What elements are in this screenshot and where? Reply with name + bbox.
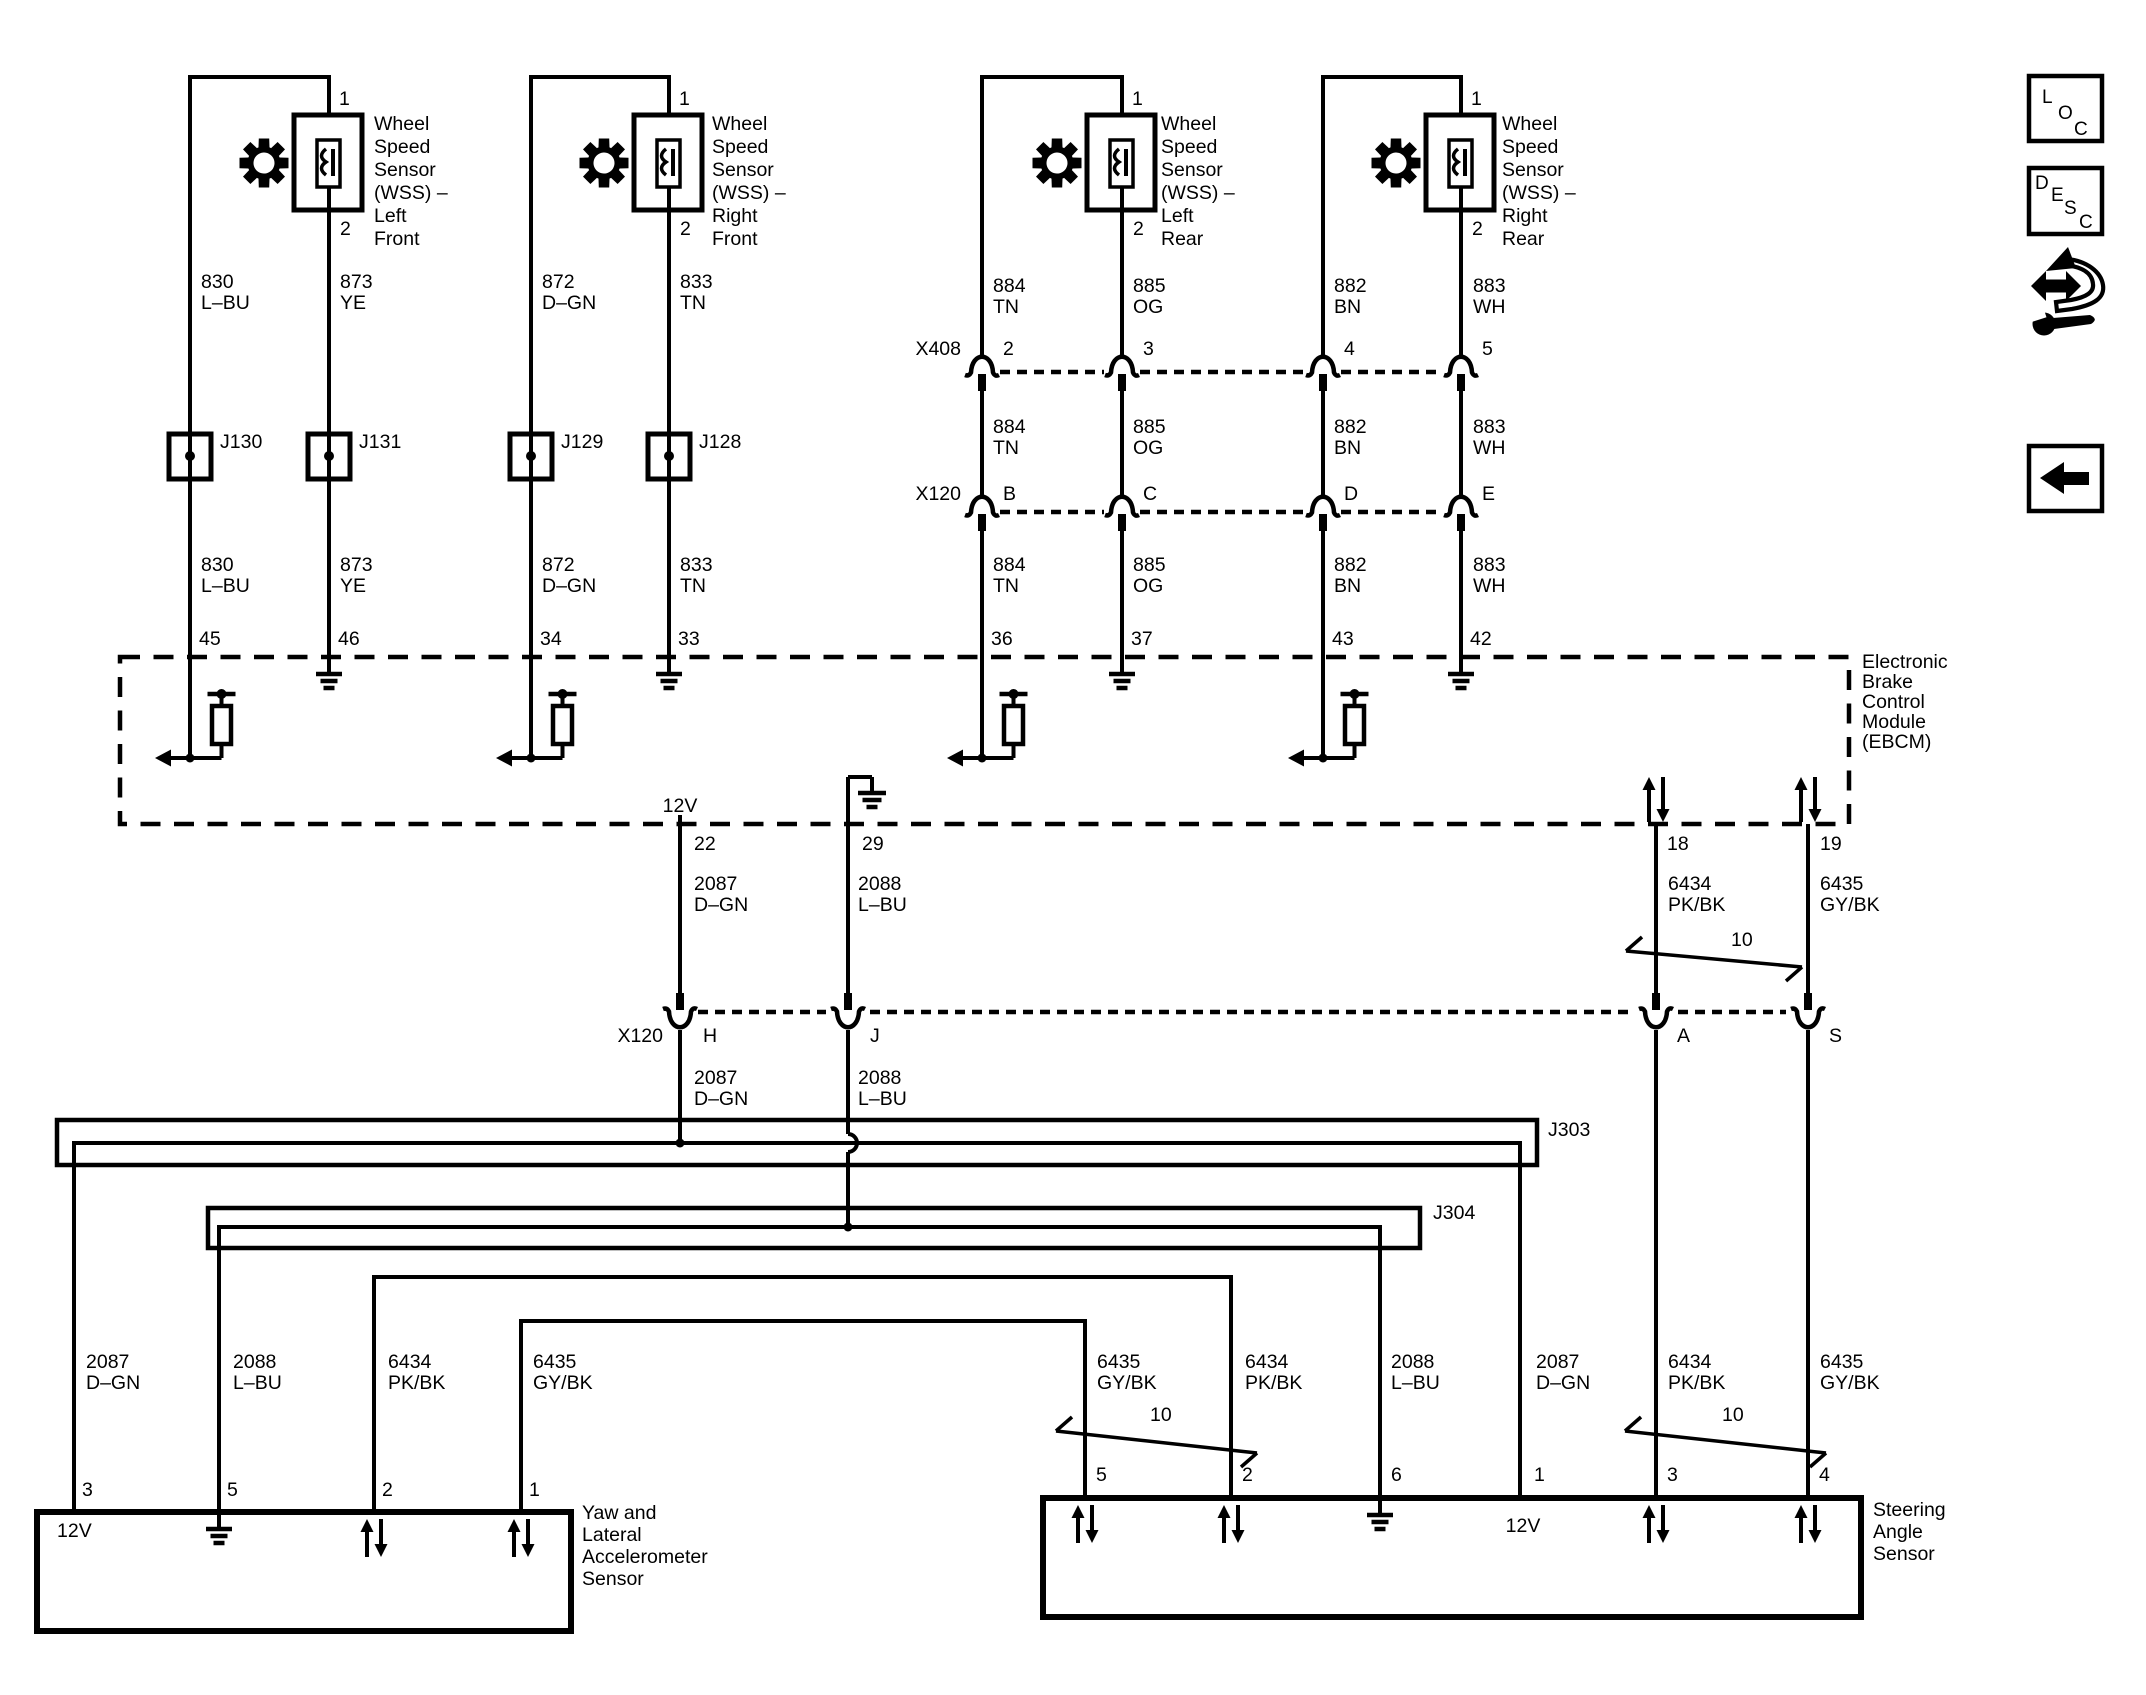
svg-text:Front: Front [712, 228, 758, 250]
wheel speed sensor B4 right rear box [1426, 115, 1494, 210]
svg-text:(WSS) –: (WSS) – [1502, 182, 1576, 204]
bidirectional arrows steering pin 4 [1799, 1518, 1803, 1543]
svg-text:885: 885 [1133, 554, 1166, 576]
svg-text:L: L [2042, 87, 2053, 108]
svg-text:Module: Module [1862, 711, 1926, 733]
EBCM input network pin 36 (resistor + arrow) [980, 657, 984, 758]
label 873 YE upper [340, 271, 373, 314]
wire WSS left front pin 1 top [190, 77, 329, 115]
svg-text:Sensor: Sensor [582, 1568, 644, 1590]
svg-text:Electronic: Electronic [1862, 651, 1948, 673]
ground EBCM pin 37 [1120, 657, 1124, 674]
svg-text:WH: WH [1473, 296, 1506, 318]
connector X408 terminal 3 [1105, 357, 1139, 376]
wire rear x982 seg1 [980, 90, 984, 356]
svg-text:J304: J304 [1433, 1202, 1475, 1224]
wire WSS right rear pin 1 top [1323, 77, 1461, 115]
svg-text:22: 22 [694, 833, 716, 855]
gear icon right rear [1372, 139, 1421, 188]
svg-text:BN: BN [1334, 296, 1361, 318]
svg-text:Left: Left [1161, 205, 1194, 227]
label 6435 GY/BK steering [1097, 1351, 1157, 1394]
svg-text:OG: OG [1133, 575, 1163, 597]
connector X120 terminal H [676, 993, 684, 1010]
label 882 BN row1 [1334, 275, 1367, 318]
wire rear x982 seg3 [980, 531, 984, 657]
svg-text:872: 872 [542, 271, 575, 293]
connector X120 terminal C [1105, 497, 1139, 516]
svg-text:D–GN: D–GN [86, 1372, 140, 1394]
label 2088 L-BU below EBCM [858, 873, 907, 916]
svg-text:1: 1 [529, 1479, 540, 1501]
svg-text:S: S [2064, 198, 2077, 219]
svg-text:882: 882 [1334, 275, 1367, 297]
svg-text:2088: 2088 [858, 873, 901, 895]
svg-text:L–BU: L–BU [233, 1372, 282, 1394]
label wheel speed sensor left front [374, 113, 448, 250]
svg-text:883: 883 [1473, 554, 1506, 576]
svg-text:(WSS) –: (WSS) – [374, 182, 448, 204]
X408 dashed connector line [1000, 370, 1104, 375]
EBCM input network pin 45 (resistor + arrow) [188, 657, 192, 758]
wire 2088 hop over J303 [848, 1134, 857, 1152]
svg-text:Sensor: Sensor [1873, 1543, 1935, 1565]
svg-text:1: 1 [1534, 1464, 1545, 1486]
svg-text:BN: BN [1334, 437, 1361, 459]
J304 bus wire [219, 1227, 1380, 1512]
svg-text:Sensor: Sensor [1161, 159, 1223, 181]
wheel speed sensor B3 left rear box [1087, 115, 1155, 210]
svg-text:6435: 6435 [1097, 1351, 1141, 1373]
label 6434 PK/BK steering [1245, 1351, 1302, 1394]
svg-text:Sensor: Sensor [712, 159, 774, 181]
svg-text:WH: WH [1473, 575, 1506, 597]
splice pack J304 box [208, 1208, 1420, 1248]
EBCM input network pin 34 (resistor + arrow) [529, 657, 533, 758]
wire WSS right front pin 1 top [531, 77, 669, 115]
svg-text:6435: 6435 [1820, 1351, 1864, 1373]
J303 bus wire [74, 1143, 1520, 1512]
svg-text:X408: X408 [915, 338, 961, 360]
svg-text:873: 873 [340, 271, 373, 293]
label 6435 GY/BK steering right [1820, 1351, 1880, 1394]
connector X120 terminal S [1804, 993, 1812, 1010]
label 2088 L-BU steering [1391, 1351, 1440, 1394]
svg-text:Speed: Speed [1161, 136, 1217, 158]
svg-text:Right: Right [1502, 205, 1548, 227]
splice J131 [308, 434, 350, 479]
svg-text:34: 34 [540, 628, 562, 650]
svg-text:D–GN: D–GN [694, 894, 748, 916]
svg-text:WH: WH [1473, 437, 1506, 459]
X120 row1 dashed connector line [1000, 510, 1104, 515]
svg-text:PK/BK: PK/BK [1668, 894, 1725, 916]
svg-text:OG: OG [1133, 437, 1163, 459]
svg-text:Steering: Steering [1873, 1499, 1946, 1521]
svg-text:4: 4 [1344, 338, 1355, 360]
svg-text:3: 3 [1667, 1464, 1678, 1486]
svg-text:885: 885 [1133, 416, 1166, 438]
svg-text:2088: 2088 [858, 1067, 901, 1089]
connector X120 terminal D [1306, 497, 1340, 516]
svg-text:5: 5 [1482, 338, 1493, 360]
svg-text:830: 830 [201, 271, 234, 293]
svg-text:TN: TN [680, 575, 706, 597]
bidirectional arrows steering pin 5 [1076, 1518, 1080, 1543]
svg-text:12V: 12V [663, 795, 698, 817]
label 882 BN row2 [1334, 416, 1367, 459]
wire 830 L-BU left front [188, 90, 192, 657]
bidirectional arrows EBCM pin 18 [1647, 790, 1651, 822]
wire 2088 J to J304 upper [846, 1030, 850, 1134]
svg-text:29: 29 [862, 833, 884, 855]
svg-text:(WSS) –: (WSS) – [1161, 182, 1235, 204]
svg-text:2: 2 [1133, 218, 1144, 240]
twisted pair symbol steering 3/4 [1625, 1431, 1826, 1453]
label 884 TN row2 [993, 416, 1026, 459]
icon back arrow box [2029, 446, 2102, 511]
svg-text:2087: 2087 [694, 1067, 737, 1089]
wire WSS left rear pin 1 top [982, 77, 1122, 115]
svg-text:12V: 12V [1506, 1515, 1541, 1537]
svg-text:882: 882 [1334, 416, 1367, 438]
label 2087 D-GN below EBCM [694, 873, 748, 916]
svg-text:Rear: Rear [1161, 228, 1204, 250]
label 872 D-GN upper [542, 271, 596, 314]
bidirectional arrows yaw pin 2 [365, 1532, 369, 1557]
svg-text:884: 884 [993, 275, 1026, 297]
svg-text:6434: 6434 [388, 1351, 432, 1373]
label EBCM [1862, 651, 1948, 753]
wire 872 D-GN right front [529, 90, 533, 657]
label 6434 PK/BK yaw [388, 1351, 445, 1394]
wire 6435 yaw-steering [521, 1321, 1085, 1512]
wire rear x982 seg2 [980, 391, 984, 497]
sensor element right rear [1449, 140, 1472, 187]
svg-text:YE: YE [340, 292, 366, 314]
ground steering pin 6 [1378, 1498, 1382, 1515]
svg-text:1: 1 [1471, 88, 1482, 110]
wire 6434 A to steering 3 [1654, 1030, 1658, 1498]
svg-text:5: 5 [227, 1479, 238, 1501]
svg-text:GY/BK: GY/BK [533, 1372, 593, 1394]
label wheel speed sensor left rear [1161, 113, 1235, 250]
svg-text:6435: 6435 [1820, 873, 1864, 895]
svg-text:830: 830 [201, 554, 234, 576]
svg-text:1: 1 [339, 88, 350, 110]
svg-text:4: 4 [1819, 1464, 1830, 1486]
yaw and lateral accelerometer sensor box [37, 1512, 571, 1631]
svg-text:12V: 12V [57, 1520, 92, 1542]
svg-text:Wheel: Wheel [1161, 113, 1216, 135]
ground EBCM pin 29 [846, 777, 850, 824]
label wheel speed sensor right rear [1502, 113, 1576, 250]
svg-text:L–BU: L–BU [858, 1088, 907, 1110]
label 883 WH row2 [1473, 416, 1506, 459]
svg-text:2087: 2087 [86, 1351, 129, 1373]
label steering angle sensor [1873, 1499, 1946, 1565]
svg-text:J: J [870, 1025, 880, 1047]
wire 6435 GY/BK pin19 [1806, 824, 1810, 995]
svg-text:X120: X120 [617, 1025, 663, 1047]
steering angle sensor box [1043, 1498, 1861, 1617]
label 882 BN row3 [1334, 554, 1367, 597]
svg-text:1: 1 [679, 88, 690, 110]
svg-text:46: 46 [338, 628, 360, 650]
label 884 TN row1 [993, 275, 1026, 318]
bidirectional arrows steering pin 2 [1222, 1518, 1226, 1543]
svg-text:L–BU: L–BU [201, 575, 250, 597]
svg-text:45: 45 [199, 628, 221, 650]
svg-text:872: 872 [542, 554, 575, 576]
svg-text:10: 10 [1731, 929, 1753, 951]
svg-text:B: B [1003, 483, 1016, 505]
svg-text:Wheel: Wheel [1502, 113, 1557, 135]
svg-text:Wheel: Wheel [712, 113, 767, 135]
svg-text:884: 884 [993, 554, 1026, 576]
svg-text:D: D [1344, 483, 1358, 505]
svg-text:L–BU: L–BU [201, 292, 250, 314]
wire 2088 J304 segment [846, 1152, 850, 1227]
sensor element left rear [1110, 140, 1133, 187]
svg-text:882: 882 [1334, 554, 1367, 576]
svg-text:2: 2 [340, 218, 351, 240]
svg-text:10: 10 [1150, 1404, 1172, 1426]
icon circuit arrows and wrench [2031, 271, 2081, 301]
wire rear x1461 seg1 [1459, 210, 1463, 356]
svg-text:3: 3 [82, 1479, 93, 1501]
wire 833 TN right front [667, 210, 671, 657]
svg-text:L–BU: L–BU [1391, 1372, 1440, 1394]
EBCM dashed box [120, 657, 1849, 824]
wire stub pin 22 [678, 815, 682, 824]
svg-text:Lateral: Lateral [582, 1524, 642, 1546]
label 2088 L-BU mid [858, 1067, 907, 1110]
junction dot 2088 on J304 [844, 1223, 853, 1232]
svg-text:6: 6 [1391, 1464, 1402, 1486]
svg-text:37: 37 [1131, 628, 1153, 650]
connector X408 terminal 4 [1306, 357, 1340, 376]
svg-text:Rear: Rear [1502, 228, 1545, 250]
svg-text:Brake: Brake [1862, 671, 1913, 693]
svg-text:E: E [2051, 185, 2064, 206]
svg-text:Speed: Speed [374, 136, 430, 158]
connector X120 terminal J [844, 993, 852, 1010]
label 2087 D-GN mid [694, 1067, 748, 1110]
svg-text:C: C [2079, 212, 2093, 233]
label 883 WH row1 [1473, 275, 1506, 318]
label 872 D-GN lower [542, 554, 596, 597]
svg-text:PK/BK: PK/BK [1245, 1372, 1302, 1394]
wire rear x1323 seg1 [1321, 90, 1325, 356]
junction dot 2087 on J303 [676, 1139, 685, 1148]
twisted pair symbol steering 5/2 [1056, 1431, 1257, 1453]
svg-text:43: 43 [1332, 628, 1354, 650]
svg-text:TN: TN [993, 437, 1019, 459]
svg-text:GY/BK: GY/BK [1097, 1372, 1157, 1394]
wire rear x1461 seg3 [1459, 531, 1463, 657]
svg-text:885: 885 [1133, 275, 1166, 297]
svg-text:J130: J130 [220, 431, 262, 453]
svg-text:Accelerometer: Accelerometer [582, 1546, 708, 1568]
label 885 OG row3 [1133, 554, 1166, 597]
label 885 OG row2 [1133, 416, 1166, 459]
wire 6434 yaw-steering [374, 1277, 1231, 1512]
wire 873 YE left front [327, 210, 331, 657]
svg-text:19: 19 [1820, 833, 1842, 855]
gear icon left rear [1033, 139, 1082, 188]
sensor element right front [657, 140, 680, 187]
connector X408 terminal 2 [965, 357, 999, 376]
ground EBCM pin 33 [667, 657, 671, 674]
icon LOC box [2029, 76, 2102, 141]
wire rear x1122 seg2 [1120, 391, 1124, 497]
connector X408 terminal 5 [1444, 357, 1478, 376]
wire rear x1323 seg3 [1321, 531, 1325, 657]
label wheel speed sensor right front [712, 113, 786, 250]
svg-text:1: 1 [1132, 88, 1143, 110]
label 6435 GY/BK yaw [533, 1351, 593, 1394]
X120 row2 dashed connector line [698, 1010, 826, 1015]
label 6435 GY/BK below EBCM [1820, 873, 1880, 916]
svg-text:6435: 6435 [533, 1351, 577, 1373]
splice J128 [648, 434, 690, 479]
bidirectional arrows steering pin 3 [1647, 1518, 1651, 1543]
bidirectional arrows EBCM pin 19 [1799, 790, 1803, 822]
svg-text:3: 3 [1143, 338, 1154, 360]
wire rear x1122 seg1 [1120, 210, 1124, 356]
gear icon right front [580, 139, 629, 188]
svg-text:2: 2 [1472, 218, 1483, 240]
svg-text:883: 883 [1473, 275, 1506, 297]
ground EBCM pin 46 [327, 657, 331, 674]
svg-text:33: 33 [678, 628, 700, 650]
svg-text:6434: 6434 [1245, 1351, 1289, 1373]
svg-text:D–GN: D–GN [542, 292, 596, 314]
connector X120 terminal B [965, 497, 999, 516]
svg-text:YE: YE [340, 575, 366, 597]
svg-text:D: D [2035, 173, 2049, 194]
splice J130 [169, 434, 211, 479]
svg-text:OG: OG [1133, 296, 1163, 318]
svg-text:GY/BK: GY/BK [1820, 894, 1880, 916]
gear icon left front [240, 139, 289, 188]
label 884 TN row3 [993, 554, 1026, 597]
svg-text:J129: J129 [561, 431, 603, 453]
svg-text:884: 884 [993, 416, 1026, 438]
svg-text:J303: J303 [1548, 1119, 1590, 1141]
svg-text:Sensor: Sensor [1502, 159, 1564, 181]
sensor element left front [317, 140, 340, 187]
label 830 L-BU lower [201, 554, 250, 597]
svg-text:833: 833 [680, 554, 713, 576]
svg-text:C: C [1143, 483, 1157, 505]
svg-text:Right: Right [712, 205, 758, 227]
svg-text:Speed: Speed [1502, 136, 1558, 158]
wire 2088 L-BU pin29 [846, 824, 850, 995]
svg-text:Front: Front [374, 228, 420, 250]
svg-text:A: A [1677, 1025, 1690, 1047]
svg-text:TN: TN [993, 296, 1019, 318]
svg-text:J131: J131 [359, 431, 401, 453]
svg-text:873: 873 [340, 554, 373, 576]
bidirectional arrows yaw pin 1 [512, 1532, 516, 1557]
label 2087 D-GN steering [1536, 1351, 1590, 1394]
label 6434 PK/BK below EBCM [1668, 873, 1725, 916]
wheel speed sensor B2 right front box [634, 115, 702, 210]
svg-text:O: O [2058, 103, 2073, 124]
svg-text:TN: TN [993, 575, 1019, 597]
svg-text:833: 833 [680, 271, 713, 293]
label yaw sensor [582, 1502, 708, 1590]
label 883 WH row3 [1473, 554, 1506, 597]
icon DESC box [2029, 168, 2102, 234]
wire 6434 PK/BK pin18 [1654, 824, 1658, 995]
label 2087 D-GN yaw [86, 1351, 140, 1394]
label 833 TN upper [680, 271, 713, 314]
svg-text:Sensor: Sensor [374, 159, 436, 181]
svg-text:J128: J128 [699, 431, 741, 453]
svg-text:Yaw and: Yaw and [582, 1502, 656, 1524]
svg-text:S: S [1829, 1025, 1842, 1047]
label 873 YE lower [340, 554, 373, 597]
svg-text:BN: BN [1334, 575, 1361, 597]
svg-text:L–BU: L–BU [858, 894, 907, 916]
connector X120 terminal A [1652, 993, 1660, 1010]
svg-text:PK/BK: PK/BK [1668, 1372, 1725, 1394]
svg-text:Speed: Speed [712, 136, 768, 158]
EBCM input network pin 43 (resistor + arrow) [1321, 657, 1325, 758]
ground yaw pin 5 [217, 1512, 221, 1529]
svg-text:D–GN: D–GN [694, 1088, 748, 1110]
svg-text:2: 2 [680, 218, 691, 240]
label 833 TN lower [680, 554, 713, 597]
label 885 OG row1 [1133, 275, 1166, 318]
twisted pair symbol 18/19 [1626, 951, 1802, 967]
svg-text:883: 883 [1473, 416, 1506, 438]
svg-text:2087: 2087 [694, 873, 737, 895]
svg-text:Wheel: Wheel [374, 113, 429, 135]
label 6434 PK/BK steering right [1668, 1351, 1725, 1394]
splice J129 [510, 434, 552, 479]
svg-text:PK/BK: PK/BK [388, 1372, 445, 1394]
svg-text:6434: 6434 [1668, 873, 1712, 895]
svg-text:C: C [2074, 119, 2088, 140]
wire rear x1461 seg2 [1459, 391, 1463, 497]
wheel speed sensor B1 left front box [294, 115, 362, 210]
connector X120 terminal E [1444, 497, 1478, 516]
svg-text:D–GN: D–GN [1536, 1372, 1590, 1394]
svg-text:2088: 2088 [233, 1351, 276, 1373]
svg-text:6434: 6434 [1668, 1351, 1712, 1373]
svg-text:2: 2 [1242, 1464, 1253, 1486]
label 830 L-BU upper [201, 271, 250, 314]
svg-text:D–GN: D–GN [542, 575, 596, 597]
svg-text:2: 2 [1003, 338, 1014, 360]
svg-text:42: 42 [1470, 628, 1492, 650]
svg-text:GY/BK: GY/BK [1820, 1372, 1880, 1394]
label 2088 L-BU yaw [233, 1351, 282, 1394]
splice pack J303 box [57, 1120, 1537, 1165]
svg-text:2: 2 [382, 1479, 393, 1501]
svg-text:(WSS) –: (WSS) – [712, 182, 786, 204]
svg-text:E: E [1482, 483, 1495, 505]
wire rear x1323 seg2 [1321, 391, 1325, 497]
svg-text:2087: 2087 [1536, 1351, 1579, 1373]
svg-text:2088: 2088 [1391, 1351, 1434, 1373]
svg-text:18: 18 [1667, 833, 1689, 855]
svg-text:X120: X120 [915, 483, 961, 505]
